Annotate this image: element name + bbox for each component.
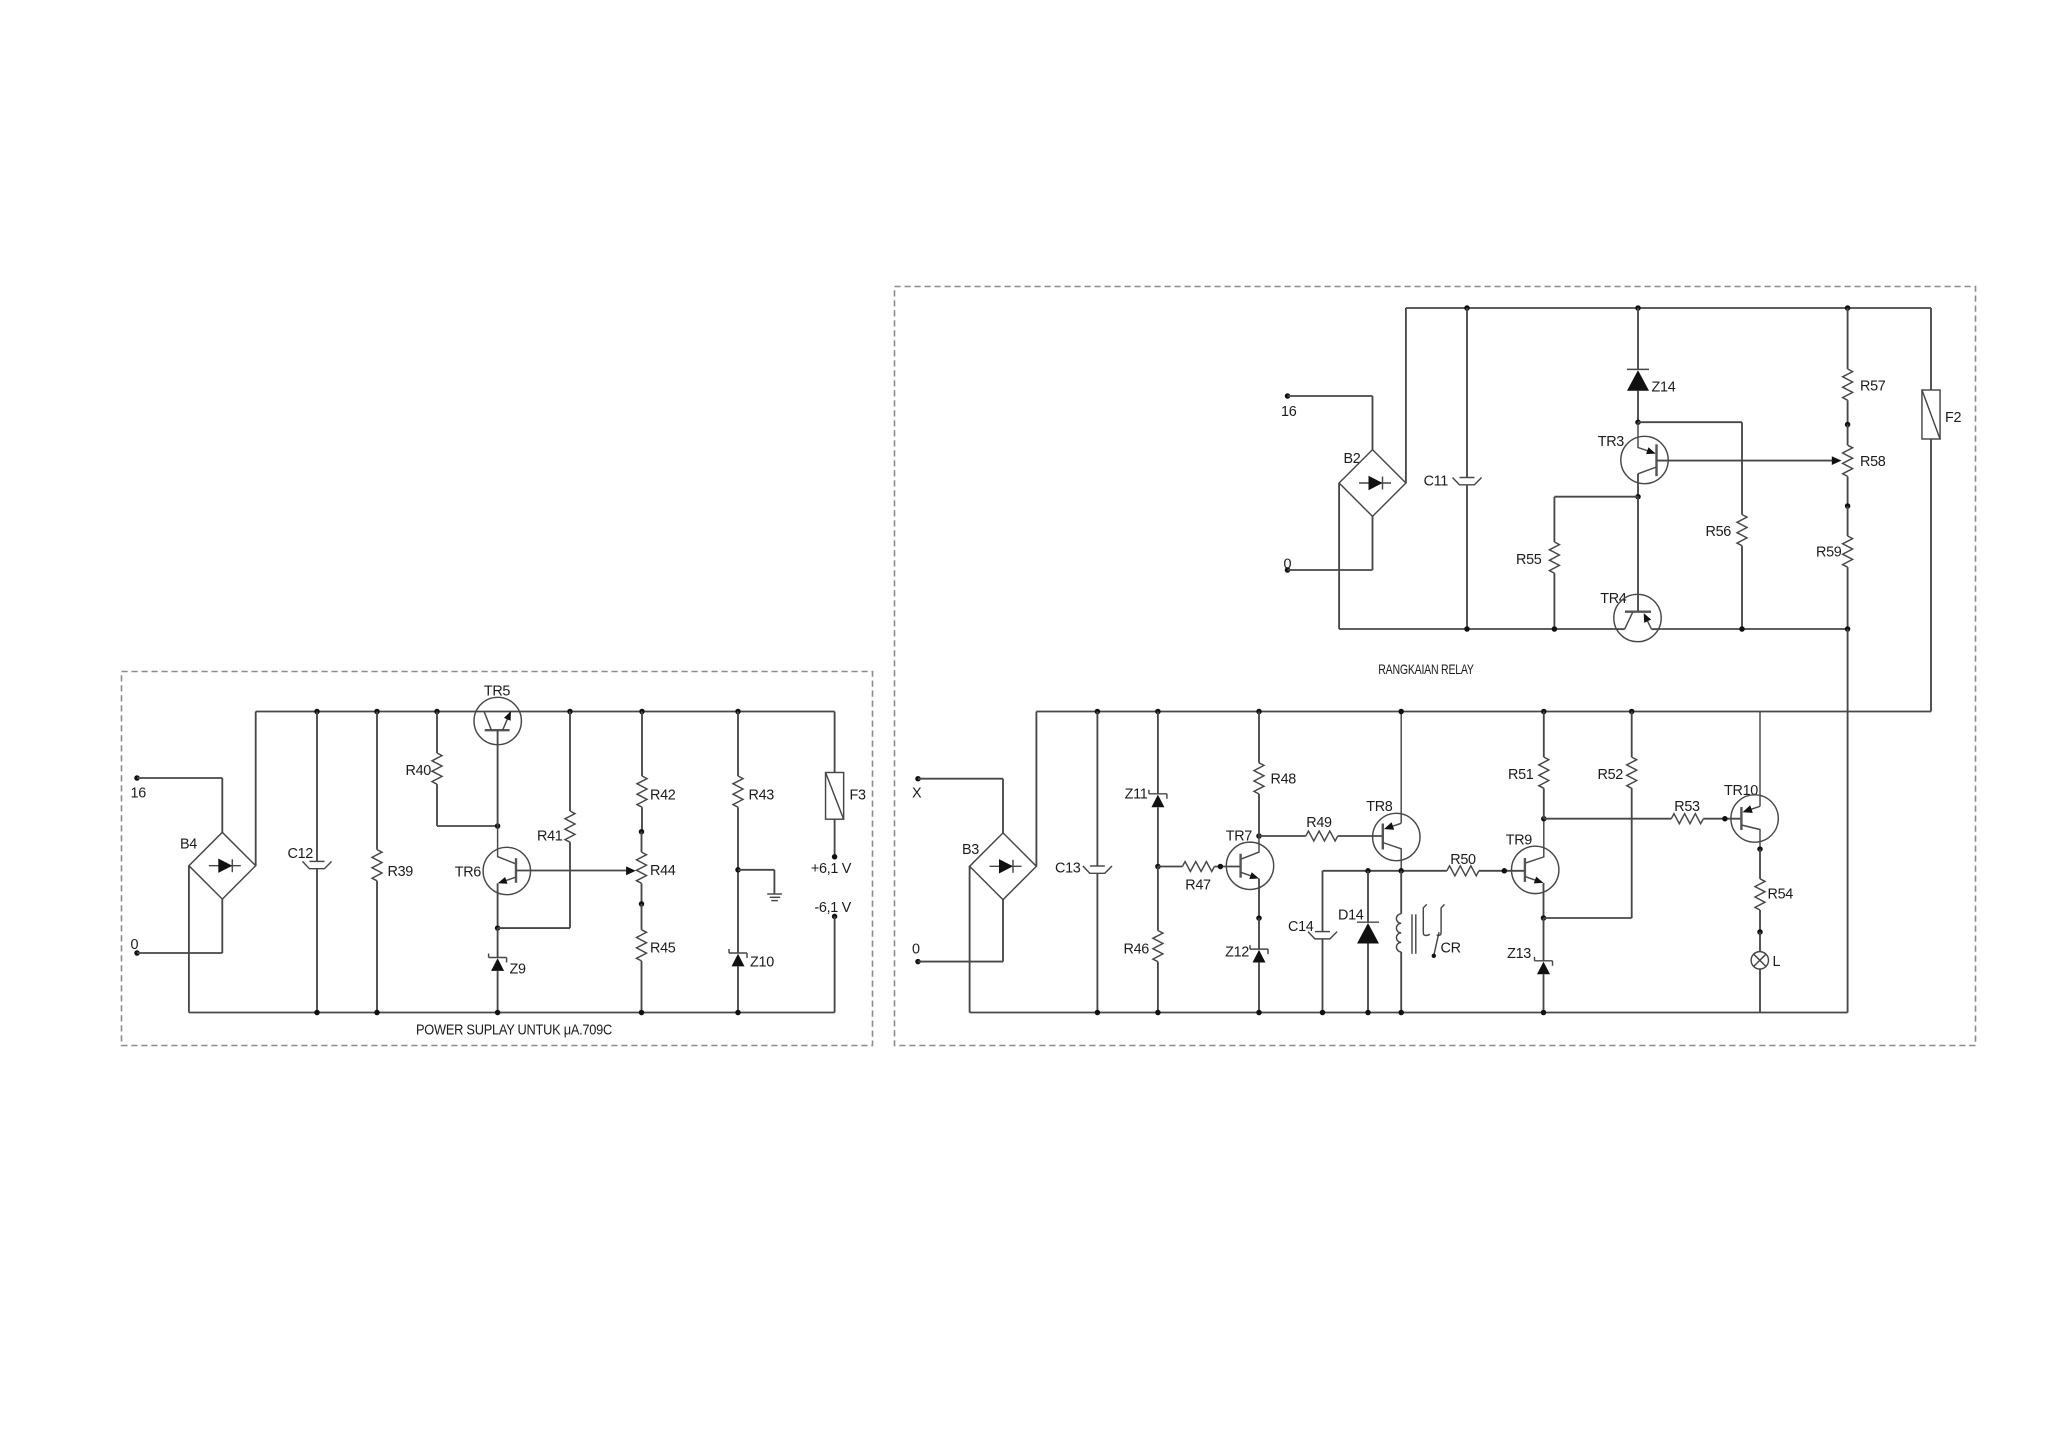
- resistor R59: [1816, 506, 1853, 632]
- node 0 (left block input terminal): [131, 937, 140, 956]
- resistor R49: [1259, 815, 1383, 841]
- resistor R51: [1508, 709, 1549, 819]
- svg-text:R43: R43: [749, 788, 775, 804]
- svg-text:0: 0: [131, 937, 139, 953]
- resistor R41: [537, 709, 575, 928]
- potentiometer R58: [1832, 425, 1886, 509]
- lamp L: [1751, 932, 1780, 1013]
- node 0 (lower input terminal): [912, 942, 921, 965]
- transistor TR4: [1600, 497, 1661, 642]
- node R43 ground junction: [735, 867, 741, 873]
- node -6,1 V output: [814, 900, 851, 919]
- diode D14: [1338, 868, 1379, 1015]
- resistor R52: [1598, 709, 1637, 918]
- node TR8 collector junction: [1398, 868, 1404, 874]
- svg-text:R58: R58: [1860, 454, 1886, 470]
- wire lower bottom rail: [970, 1012, 1848, 1014]
- wire Z14 node to R56: [1638, 422, 1742, 514]
- wire R40 to TR5 base node: [437, 823, 500, 829]
- transistor TR6: [455, 826, 531, 928]
- svg-text:TR10: TR10: [1724, 783, 1758, 799]
- resistor R45: [637, 904, 676, 1015]
- wire 0 to B2 bottom: [1288, 516, 1373, 570]
- svg-text:R42: R42: [650, 788, 676, 804]
- svg-text:X: X: [912, 786, 922, 802]
- capacitor C14: [1288, 871, 1337, 1015]
- node 16 (relay input terminal): [1281, 393, 1297, 420]
- svg-text:R59: R59: [1816, 545, 1842, 561]
- node 0 (relay input terminal): [1284, 557, 1292, 573]
- svg-text:L: L: [1773, 954, 1781, 970]
- bridge rectifier B3: [962, 833, 1036, 900]
- svg-text:R41: R41: [537, 829, 563, 845]
- svg-text:C11: C11: [1424, 474, 1449, 490]
- svg-text:RANGKAIAN RELAY: RANGKAIAN RELAY: [1378, 661, 1474, 677]
- transistor TR3: [1598, 422, 1668, 497]
- wire 0 to B4 bottom: [137, 899, 222, 953]
- svg-text:POWER SUPLAY UNTUK μA.709C: POWER SUPLAY UNTUK μA.709C: [416, 1023, 612, 1039]
- capacitor C13: [1055, 709, 1112, 1016]
- svg-text:F3: F3: [850, 788, 866, 804]
- svg-text:R47: R47: [1185, 878, 1211, 894]
- svg-text:R53: R53: [1674, 799, 1700, 815]
- node 16 (left block input terminal): [131, 775, 147, 801]
- wire B2 right vertex to relay top rail: [1405, 308, 1407, 483]
- ground: [738, 870, 782, 901]
- resistor R54: [1755, 849, 1793, 935]
- wire X to B3 top: [918, 779, 1003, 833]
- wire R52 to TR9 emitter: [1544, 917, 1632, 919]
- wire -6,1 V to bottom rail: [834, 916, 836, 1012]
- svg-text:TR3: TR3: [1598, 434, 1625, 450]
- svg-text:R57: R57: [1860, 379, 1886, 395]
- transistor TR7: [1226, 829, 1274, 921]
- svg-text:R45: R45: [650, 941, 676, 957]
- caption RANGKAIAN RELAY: [1378, 661, 1474, 677]
- zener Z13: [1507, 918, 1552, 1015]
- wire lower top rail: [1036, 711, 1931, 713]
- wire 16 to B2 top: [1288, 396, 1373, 450]
- zener Z14: [1627, 305, 1676, 425]
- svg-text:R55: R55: [1516, 552, 1542, 568]
- zener Z9: [489, 928, 526, 1015]
- wire top rail (left block): [256, 711, 835, 713]
- transistor TR5: [474, 684, 521, 827]
- svg-text:F2: F2: [1945, 410, 1961, 426]
- svg-text:16: 16: [1281, 404, 1297, 420]
- svg-text:B3: B3: [962, 842, 979, 858]
- zener Z12: [1225, 918, 1268, 1015]
- svg-text:CR: CR: [1441, 941, 1461, 957]
- svg-text:+6,1 V: +6,1 V: [811, 861, 852, 877]
- resistor R57: [1843, 305, 1886, 427]
- resistor R55: [1516, 497, 1638, 632]
- resistor R56: [1706, 515, 1748, 632]
- wire bottom rail (left block): [189, 1012, 835, 1014]
- resistor R48: [1254, 709, 1296, 836]
- wire 16 to B4 top: [137, 778, 222, 832]
- wire B2 left vertex to relay bottom rail: [1338, 483, 1340, 629]
- relay coil CR: [1396, 871, 1404, 1015]
- potentiometer R44: [626, 832, 676, 907]
- svg-text:TR9: TR9: [1506, 833, 1533, 849]
- resistor R40: [406, 709, 443, 826]
- svg-text:R52: R52: [1598, 767, 1624, 783]
- wire R41 to TR6 emitter: [498, 927, 570, 929]
- relay block dashed border: [895, 287, 1976, 1046]
- resistor R50: [1447, 852, 1525, 876]
- svg-text:Z14: Z14: [1652, 380, 1676, 396]
- svg-text:C12: C12: [288, 846, 314, 862]
- svg-text:R54: R54: [1768, 887, 1794, 903]
- wire relay bottom rail: [1339, 628, 1848, 630]
- svg-text:0: 0: [912, 942, 920, 958]
- svg-text:TR6: TR6: [455, 865, 482, 881]
- transistor TR9: [1506, 819, 1559, 921]
- resistor R42: [637, 709, 676, 835]
- resistor R39: [372, 709, 413, 1016]
- svg-text:R49: R49: [1306, 815, 1332, 831]
- wire 0 to B3 bottom: [918, 900, 1003, 962]
- wire TR3 base to R58 wiper: [1657, 460, 1834, 462]
- svg-text:R50: R50: [1450, 852, 1476, 868]
- svg-text:C13: C13: [1055, 861, 1081, 877]
- resistor R43: [733, 709, 774, 953]
- capacitor C12: [288, 709, 332, 1016]
- wire TR8 collector node line (C14/D14): [1323, 870, 1447, 872]
- svg-text:R56: R56: [1706, 524, 1732, 540]
- svg-text:Z10: Z10: [750, 955, 774, 971]
- svg-text:Z13: Z13: [1507, 946, 1531, 962]
- svg-text:R51: R51: [1508, 767, 1534, 783]
- node R51/R53 junction: [1541, 816, 1547, 822]
- svg-text:R48: R48: [1271, 772, 1297, 788]
- wire relay top rail: [1406, 307, 1931, 309]
- relay core: [1412, 914, 1416, 954]
- node TR3 collector junction: [1635, 494, 1641, 500]
- zener Z10: [729, 949, 774, 1015]
- fuse F3: [826, 712, 866, 860]
- svg-text:B4: B4: [180, 837, 197, 853]
- svg-text:Z11: Z11: [1125, 787, 1148, 803]
- fuse F2: [1922, 308, 1962, 712]
- bridge rectifier B4: [180, 832, 256, 899]
- svg-text:R44: R44: [650, 863, 676, 879]
- wire TR6 base to R44 wiper: [516, 870, 627, 872]
- svg-text:D14: D14: [1338, 908, 1364, 924]
- svg-text:R46: R46: [1124, 942, 1150, 958]
- resistor R46: [1124, 867, 1163, 1016]
- power supply block dashed border: [122, 672, 873, 1046]
- wire B4 right vertex to top rail: [255, 712, 257, 866]
- svg-text:R39: R39: [388, 864, 414, 880]
- node X (input terminal): [912, 776, 922, 802]
- transistor TR10: [1724, 712, 1778, 852]
- wire B3 right vertex to lower top rail: [1035, 712, 1037, 867]
- bridge rectifier B2: [1339, 450, 1406, 517]
- node +6,1 V output: [811, 861, 852, 877]
- wire relay rail to lower bottom rail: [1847, 629, 1849, 1013]
- svg-text:TR8: TR8: [1366, 799, 1393, 815]
- relay contact CR: [1423, 904, 1460, 958]
- wire B4 left vertex to bottom rail: [188, 866, 190, 1013]
- svg-text:16: 16: [131, 786, 147, 802]
- node TR6 emitter junction: [495, 925, 501, 931]
- zener Z11: [1125, 709, 1167, 870]
- wire B3 left vertex to lower bottom rail: [969, 866, 971, 1012]
- capacitor C11: [1424, 305, 1482, 632]
- caption POWER SUPLAY UNTUK uA.709C: [416, 1023, 612, 1039]
- svg-text:Z12: Z12: [1225, 945, 1249, 961]
- svg-text:R40: R40: [406, 763, 432, 779]
- resistor R47: [1158, 862, 1241, 894]
- svg-text:Z9: Z9: [510, 962, 526, 978]
- svg-text:-6,1 V: -6,1 V: [814, 900, 851, 916]
- resistor R53: [1544, 799, 1742, 824]
- transistor TR8: [1366, 709, 1420, 871]
